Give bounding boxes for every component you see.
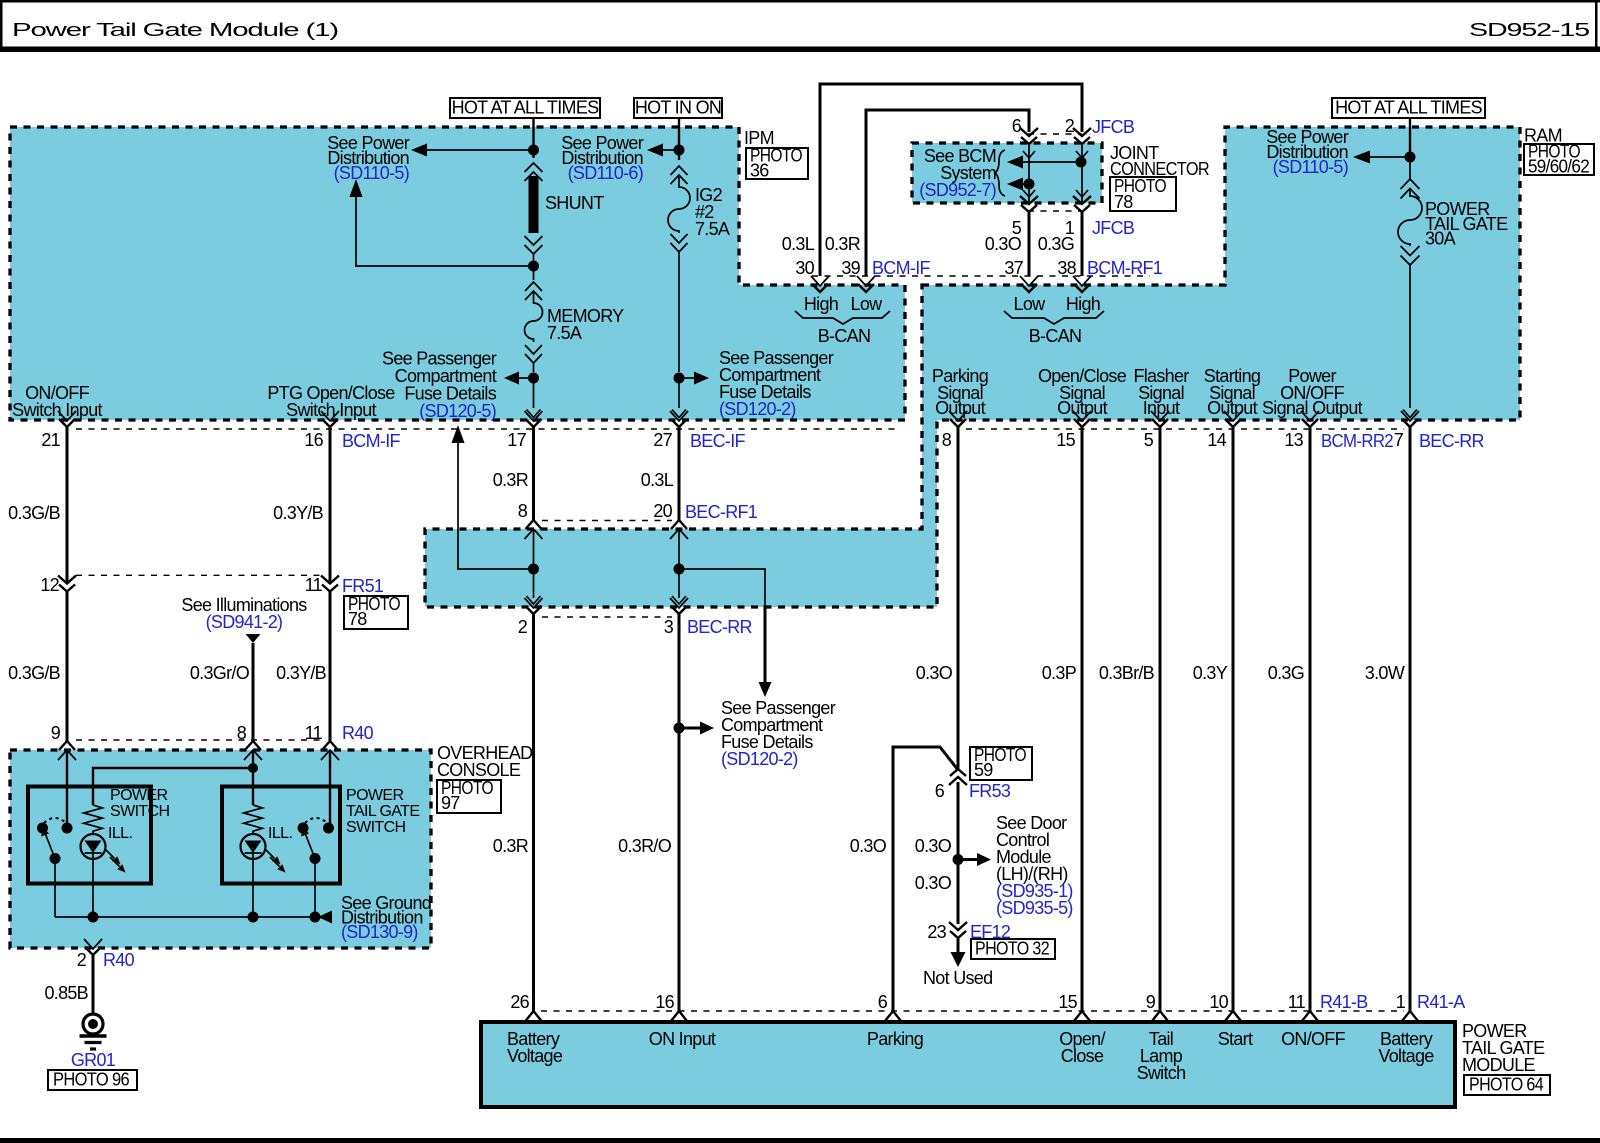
svg-text:R40: R40 — [103, 950, 135, 970]
node: battery feed junction right — [1405, 152, 1416, 163]
wire: CAN bus lower run (pin39 to JFCB pin6) — [866, 110, 1029, 276]
svg-text:97: 97 — [441, 793, 460, 813]
connector dashed line bottom module row — [541, 1010, 1404, 1012]
svg-text:BEC-RR: BEC-RR — [687, 617, 753, 637]
svg-text:78: 78 — [348, 609, 367, 629]
svg-text:17: 17 — [507, 430, 526, 450]
svg-text:Voltage: Voltage — [1378, 1046, 1434, 1066]
wires to ground rail from PTG switch — [252, 853, 254, 917]
svg-text:BCM-IF: BCM-IF — [342, 431, 400, 451]
svg-text:SD952-15: SD952-15 — [1469, 20, 1590, 40]
svg-text:Signal Output: Signal Output — [1262, 398, 1363, 418]
svg-text:0.3P: 0.3P — [1042, 663, 1077, 683]
svg-text:15: 15 — [1056, 430, 1075, 450]
svg-text:CONSOLE: CONSOLE — [437, 760, 521, 780]
svg-text:0.3G/B: 0.3G/B — [8, 663, 61, 683]
svg-text:PHOTO 96: PHOTO 96 — [53, 1070, 130, 1090]
svg-text:0.3O: 0.3O — [915, 873, 952, 893]
HOT IN ON label box — [634, 98, 722, 118]
svg-text:0.3R: 0.3R — [493, 836, 529, 856]
connector symbol JFCB pin 2 — [1073, 128, 1091, 144]
wire pin21 down to pin12 — [66, 426, 69, 583]
connector symbol pin 13 — [1301, 411, 1319, 427]
connector symbol EF12 pin 23 — [949, 922, 967, 938]
svg-text:(SD952-7): (SD952-7) — [919, 180, 996, 200]
svg-text:BEC-RR: BEC-RR — [1419, 431, 1485, 451]
svg-text:7.5A: 7.5A — [547, 323, 582, 343]
wire pin12 down to pin9 — [66, 590, 69, 741]
svg-text:3.0W: 3.0W — [1365, 663, 1405, 683]
wire parking: pin8 down, jog to module pin 6, branch to FR53 — [893, 426, 958, 1012]
svg-text:0.3O: 0.3O — [850, 836, 887, 856]
wire+arrow up toward module (BEC-RF1 internal) — [458, 442, 534, 569]
wire+arrow to See Passenger Compartment Fuse Details (SD120-2) — [679, 377, 695, 379]
svg-text:ON Input: ON Input — [649, 1029, 716, 1049]
svg-text:Power Tail Gate Module (1): Power Tail Gate Module (1) — [12, 20, 338, 40]
HOT AT ALL TIMES label box (right) — [1332, 98, 1485, 118]
connector dashed line FR51 row — [76, 574, 320, 576]
svg-text:12: 12 — [40, 575, 59, 595]
connector symbol R40 pin 2 — [84, 939, 102, 955]
svg-text:TAIL GATE: TAIL GATE — [346, 803, 419, 820]
connector symbol R40 pin 8 — [244, 741, 262, 760]
resistor power switch — [84, 805, 103, 834]
wire+arrow to See Power Distribution (SD110-6) — [662, 149, 679, 151]
svg-text:Switch: Switch — [1137, 1063, 1186, 1083]
svg-text:9: 9 — [1146, 992, 1156, 1012]
arrow See Ground Distribution — [318, 911, 332, 924]
svg-text:0.3R: 0.3R — [493, 470, 529, 490]
wire pin27 down through BEC-RF1 — [678, 426, 681, 521]
connector dashed line R40 row — [76, 739, 320, 741]
PTG switch blade — [305, 833, 315, 859]
EF12 PHOTO 32 box — [971, 939, 1055, 959]
wire: CAN bus upper run (pin30 to JFCB pin2) — [820, 84, 1082, 276]
shunt element — [525, 163, 543, 181]
ground GR01 — [83, 1014, 103, 1034]
module pin connector symbols — [526, 1011, 542, 1021]
svg-text:POWER: POWER — [110, 787, 167, 804]
power switch contacts — [37, 823, 48, 834]
svg-text:6: 6 — [1012, 116, 1022, 136]
power tail gate module box — [481, 1022, 1455, 1107]
connector dashed line top row — [76, 428, 1404, 430]
svg-text:2: 2 — [77, 950, 87, 970]
svg-text:0.3G: 0.3G — [1268, 663, 1304, 683]
wire inside BEC band pin20 — [678, 529, 680, 598]
node: battery feed junction — [528, 145, 539, 156]
connector dashed lines JFCB — [1028, 134, 1082, 211]
svg-text:0.3O: 0.3O — [985, 234, 1022, 254]
connector symbol pin 38 — [1073, 276, 1091, 292]
svg-text:R40: R40 — [342, 723, 374, 743]
svg-text:8: 8 — [237, 723, 247, 743]
svg-text:2: 2 — [1065, 116, 1075, 136]
svg-text:20: 20 — [653, 501, 672, 521]
wire+arrow to See Power Distribution (SD110-5) — [426, 149, 534, 151]
svg-text:POWER: POWER — [346, 787, 403, 804]
svg-text:HOT AT ALL TIMES: HOT AT ALL TIMES — [1335, 98, 1483, 118]
wire down to pin 27 with arrowhead — [678, 378, 680, 408]
svg-text:5: 5 — [1144, 430, 1154, 450]
svg-text:(SD110-5): (SD110-5) — [1273, 157, 1348, 177]
wire BEC-RR pin3 down to module pin 16 — [678, 613, 681, 1012]
connector symbol BEC-RF1 pin 8 — [525, 520, 543, 539]
arrow+wire See BCM System lower — [1022, 183, 1029, 185]
connector symbol pin 8 — [949, 411, 967, 427]
connector symbol pin 14 — [1224, 411, 1242, 427]
joint connector JFCB box — [912, 143, 1102, 203]
svg-text:BEC-IF: BEC-IF — [690, 431, 746, 451]
wire pin9 into power switch — [66, 750, 68, 828]
svg-text:0.3G/B: 0.3G/B — [8, 503, 61, 523]
svg-text:B-CAN: B-CAN — [818, 326, 871, 346]
svg-text:FR51: FR51 — [342, 576, 384, 596]
svg-text:HOT AT ALL TIMES: HOT AT ALL TIMES — [452, 98, 600, 118]
svg-text:BCM-IF: BCM-IF — [872, 258, 930, 278]
FR51 PHOTO 78 box — [344, 596, 408, 629]
svg-text:0.3Br/B: 0.3Br/B — [1099, 663, 1155, 683]
wires inside joint connector — [1029, 145, 1082, 203]
svg-text:59: 59 — [974, 760, 993, 780]
wire illumination rail — [93, 750, 253, 805]
wire pin11 into PTG switch — [329, 750, 331, 828]
node SD120-2 branch — [674, 723, 685, 734]
svg-text:Parking: Parking — [867, 1029, 923, 1049]
svg-text:0.3O: 0.3O — [916, 663, 953, 683]
svg-text:0.3Y: 0.3Y — [1193, 663, 1228, 683]
svg-text:78: 78 — [1114, 192, 1133, 212]
svg-text:SWITCH: SWITCH — [346, 819, 406, 836]
connector symbol pin 16 — [321, 411, 339, 427]
svg-text:(SD120-2): (SD120-2) — [721, 749, 798, 769]
svg-text:(SD941-2): (SD941-2) — [206, 612, 283, 632]
svg-text:Not Used: Not Used — [923, 968, 992, 988]
svg-text:16: 16 — [304, 430, 323, 450]
svg-text:2: 2 — [518, 617, 528, 637]
svg-text:Input: Input — [1143, 398, 1180, 418]
svg-text:Start: Start — [1218, 1029, 1253, 1049]
resistor PTG switch — [244, 805, 263, 834]
svg-text:0.3L: 0.3L — [782, 234, 815, 254]
svg-text:3: 3 — [664, 617, 674, 637]
wire pin11 down to R40 pin11 — [329, 590, 332, 741]
svg-text:Switch Input: Switch Input — [12, 400, 102, 420]
connector symbol pin 30 — [811, 276, 829, 292]
wire pin13 down to module (ON/OFF) — [1309, 426, 1312, 1012]
svg-text:0.3Gr/O: 0.3Gr/O — [190, 663, 250, 683]
arrowhead at pin 7 — [1403, 410, 1417, 418]
wire+arrow up to (SD110-5) reference — [356, 196, 534, 266]
svg-text:MODULE: MODULE — [1462, 1055, 1536, 1075]
node door control branch — [953, 854, 964, 865]
LED arrows power switch — [105, 849, 120, 867]
wire pin17 down through BEC-RF1 — [532, 426, 535, 521]
JFCB PHOTO 78 box — [1110, 177, 1176, 211]
svg-text:37: 37 — [1004, 258, 1023, 278]
svg-text:23: 23 — [927, 922, 946, 942]
wire+arrow right to SD120-2 text — [679, 727, 701, 730]
svg-text:FR53: FR53 — [969, 781, 1011, 801]
POWER TAIL GATE SWITCH box — [222, 787, 340, 884]
wire: battery feed into shunt column — [532, 118, 534, 158]
connector symbol pin 17 — [525, 411, 543, 427]
connector symbol FR53 pin 6 — [949, 769, 967, 785]
svg-text:7: 7 — [1394, 430, 1404, 450]
svg-text:11: 11 — [305, 723, 323, 743]
svg-text:(SD110-6): (SD110-6) — [568, 163, 643, 183]
svg-text:Output: Output — [935, 398, 986, 418]
svg-text:8: 8 — [518, 501, 528, 521]
svg-text:PHOTO 32: PHOTO 32 — [975, 939, 1050, 959]
svg-text:0.3Y/B: 0.3Y/B — [273, 503, 324, 523]
connector symbol JFCB pin 1 — [1073, 196, 1091, 212]
fuse POWER TAIL GATE 30A — [1398, 160, 1422, 408]
wires to ground rail from power switch — [54, 859, 56, 918]
connector symbol pin 11 (FR51) — [321, 576, 339, 592]
svg-text:15: 15 — [1058, 992, 1077, 1012]
arrow+wire See BCM System upper — [1022, 161, 1080, 163]
connector symbol JFCB pin 6 — [1020, 128, 1038, 144]
connector dashed line BCM-IF/BCM-RF1 row — [812, 275, 1150, 277]
IPM PHOTO 36 box — [746, 148, 808, 179]
HOT AT ALL TIMES label box (left) — [450, 98, 600, 118]
svg-text:9: 9 — [51, 723, 61, 743]
connector dashed lines BEC-RF1 / BEC-RR rows — [542, 521, 672, 618]
svg-text:B-CAN: B-CAN — [1029, 326, 1082, 346]
connector symbol pin 5 — [1151, 411, 1169, 427]
svg-text:High: High — [1066, 294, 1100, 314]
POWER SWITCH box — [28, 787, 151, 884]
node: memory fuse output junction — [528, 373, 539, 384]
svg-text:BCM-RR2: BCM-RR2 — [1321, 431, 1394, 451]
svg-text:59/60/62: 59/60/62 — [1528, 157, 1590, 177]
wire pin15 down to module (Open/Close) — [1081, 426, 1084, 1012]
svg-text:6: 6 — [935, 781, 945, 801]
module PHOTO 64 box — [1464, 1075, 1550, 1095]
connector symbol pin 12 (FR51) — [58, 576, 76, 592]
GR01 PHOTO 96 box — [48, 1070, 137, 1090]
connector symbol BEC-RR pin 3 — [670, 598, 688, 614]
svg-text:1: 1 — [1396, 992, 1406, 1012]
wire BEC-RR pin2 down to module pin 26 — [532, 613, 535, 1012]
svg-text:30: 30 — [795, 258, 814, 278]
svg-text:JFCB: JFCB — [1092, 117, 1135, 137]
svg-text:(SD935-5): (SD935-5) — [996, 898, 1073, 918]
wire down to pin 17 with arrowhead — [533, 378, 535, 408]
fuse IG2 #2 7.5A — [668, 166, 690, 372]
LED arrows PTG switch — [265, 849, 280, 867]
svg-text:JFCB: JFCB — [1092, 218, 1135, 238]
svg-text:21: 21 — [41, 430, 60, 450]
wire pin14 down to module (Start) — [1232, 426, 1235, 1012]
svg-text:(SD130-9): (SD130-9) — [341, 922, 418, 942]
svg-text:14: 14 — [1207, 430, 1226, 450]
svg-text:PHOTO 64: PHOTO 64 — [1469, 1075, 1544, 1095]
wire+arrow to See Passenger Compartment Fuse Details (SD120-5) — [518, 377, 534, 379]
svg-text:0.3R/O: 0.3R/O — [618, 836, 672, 856]
connector symbol pin 37 — [1020, 276, 1038, 292]
node illumination rail — [248, 763, 258, 773]
fuse MEMORY 7.5A — [525, 282, 543, 372]
overhead console PHOTO 97 box — [437, 780, 501, 813]
svg-text:Low: Low — [1014, 294, 1047, 314]
LED PTG switch — [241, 834, 266, 859]
IPM/BCM region (top-left cyan block with notch) — [10, 127, 905, 420]
power switch blade — [45, 833, 55, 859]
svg-text:ON/OFF: ON/OFF — [1281, 1029, 1345, 1049]
svg-text:R41-A: R41-A — [1417, 992, 1465, 1012]
svg-text:BEC-RF1: BEC-RF1 — [685, 502, 758, 522]
svg-text:0.3Y/B: 0.3Y/B — [276, 663, 327, 683]
svg-text:Switch Input: Switch Input — [286, 400, 376, 420]
connector symbol pin 21 — [58, 411, 76, 427]
connector symbol JFCB pin 5 — [1020, 196, 1038, 212]
svg-text:38: 38 — [1057, 258, 1076, 278]
wire JFCB pin5 to BCM-RF1 pin37 — [1028, 212, 1031, 276]
connector symbol pin 7 — [1401, 411, 1419, 427]
LED power switch — [81, 834, 106, 859]
svg-text:6: 6 — [878, 992, 888, 1012]
svg-text:Voltage: Voltage — [507, 1046, 563, 1066]
svg-text:0.3L: 0.3L — [641, 470, 674, 490]
svg-text:7.5A: 7.5A — [695, 219, 730, 239]
svg-text:HOT IN ON: HOT IN ON — [635, 98, 721, 118]
svg-text:11: 11 — [305, 575, 323, 595]
svg-text:BCM-RF1: BCM-RF1 — [1087, 258, 1163, 278]
wire: IG2 feed from HOT IN ON — [678, 118, 680, 160]
node: IG2 junction — [674, 145, 685, 156]
node: shunt output junction — [533, 254, 535, 280]
svg-text:ILL.: ILL. — [108, 825, 132, 842]
connector symbol pin 39 — [857, 276, 875, 292]
connector symbol BEC-RR pin 2 — [525, 598, 543, 614]
wire+arrow to See Power Distribution (SD110-5) right — [1369, 156, 1410, 158]
svg-text:0.85B: 0.85B — [44, 983, 88, 1003]
svg-text:8: 8 — [942, 430, 952, 450]
node BEC band left — [528, 564, 539, 575]
wire+arrow to See Door Control Module — [958, 858, 978, 861]
svg-text:26: 26 — [510, 992, 529, 1012]
svg-text:GR01: GR01 — [71, 1050, 116, 1070]
wire illumination feed down to R40 pin8 — [252, 643, 255, 741]
RAM PHOTO 59/60/62 box — [1524, 144, 1594, 175]
wire pin5 down to module (Tail Lamp) — [1159, 426, 1162, 1012]
connector symbol R40 pin 11 — [321, 741, 339, 760]
svg-text:Close: Close — [1061, 1046, 1104, 1066]
svg-text:36: 36 — [750, 161, 769, 181]
svg-text:(SD110-5): (SD110-5) — [334, 163, 409, 183]
svg-text:10: 10 — [1209, 992, 1228, 1012]
svg-text:ILL.: ILL. — [268, 825, 292, 842]
svg-text:30A: 30A — [1425, 229, 1456, 249]
svg-text:Output: Output — [1207, 398, 1258, 418]
BCM-RF1/BEC region (top-right cyan block + vertical strip + mid band) — [425, 127, 1520, 607]
svg-text:R41-B: R41-B — [1320, 992, 1368, 1012]
wire pin7 down to module (Battery) — [1409, 426, 1412, 1012]
svg-text:SHUNT: SHUNT — [545, 193, 604, 213]
svg-text:16: 16 — [655, 992, 674, 1012]
svg-text:39: 39 — [841, 258, 860, 278]
svg-text:27: 27 — [653, 430, 672, 450]
arrowhead into BEC-RR pin3 — [672, 596, 686, 604]
wire: battery feed right — [1409, 118, 1411, 160]
wire inside BEC band pin8 — [533, 529, 535, 598]
FR53 PHOTO 59 box — [970, 747, 1032, 780]
connector symbol BEC-RF1 pin 20 — [670, 520, 688, 539]
svg-text:0.3O: 0.3O — [915, 836, 952, 856]
PTG switch contacts — [298, 823, 309, 834]
wire JFCB pin1 to BCM-RF1 pin38 — [1081, 212, 1084, 276]
node on JFCB pin2 line — [1076, 157, 1087, 168]
wire to SD120-2 reference (down arrow) — [679, 569, 765, 606]
node: IG2 branch junction — [674, 373, 685, 384]
node BEC band right — [674, 564, 685, 575]
svg-text:11: 11 — [1288, 992, 1306, 1012]
connector symbol pin 27 — [670, 411, 688, 427]
svg-text:High: High — [804, 294, 838, 314]
page title frame — [0, 0, 1600, 3]
wire pin16 down to pin11 — [329, 426, 332, 583]
svg-text:Low: Low — [851, 294, 884, 314]
svg-text:13: 13 — [1284, 430, 1303, 450]
wire FR53 down to EF12 — [957, 782, 960, 924]
svg-text:(SD120-2): (SD120-2) — [719, 399, 796, 419]
svg-text:SWITCH: SWITCH — [110, 803, 170, 820]
connector symbol pin 15 — [1073, 411, 1091, 427]
node on JFCB pin6 line — [1024, 179, 1035, 190]
overhead console region — [10, 750, 431, 948]
svg-text:Output: Output — [1057, 398, 1108, 418]
svg-text:(SD120-5): (SD120-5) — [419, 401, 496, 421]
ground wire — [92, 954, 95, 1014]
svg-text:0.3R: 0.3R — [825, 234, 861, 254]
wire to Not Used arrow — [957, 937, 960, 953]
ground rail — [55, 916, 318, 918]
connector symbol R40 pin 9 — [58, 741, 76, 760]
arrowhead into BEC-RR pin2 — [527, 596, 541, 604]
svg-text:0.3G: 0.3G — [1038, 234, 1074, 254]
